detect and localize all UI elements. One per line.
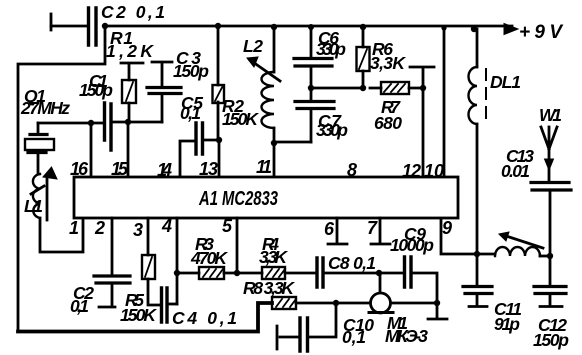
svg-text:2: 2 [94,218,105,238]
svg-text:1: 1 [69,218,79,238]
svg-text:C2 0,1: C2 0,1 [101,2,165,22]
svg-text:15: 15 [111,159,129,179]
svg-text:680: 680 [374,113,402,133]
svg-text:150K: 150K [222,109,259,129]
svg-text:150p: 150p [533,330,569,350]
svg-text:9: 9 [442,218,452,238]
svg-text:12: 12 [402,161,421,181]
svg-text:13: 13 [199,159,218,179]
svg-text:6: 6 [324,219,335,239]
svg-text:3: 3 [133,220,143,240]
svg-text:150p: 150p [173,61,209,81]
svg-text:L2: L2 [243,36,263,56]
svg-text:0,1: 0,1 [342,327,366,347]
svg-text:11: 11 [256,157,272,177]
svg-text:0,1: 0,1 [70,296,89,316]
svg-text:DL1: DL1 [490,72,521,92]
svg-text:10: 10 [424,161,444,181]
svg-text:3,3K: 3,3K [370,53,406,73]
svg-text:150p: 150p [79,80,113,100]
svg-text:МКЭ-3: МКЭ-3 [385,326,428,346]
svg-text:470K: 470K [190,248,228,268]
svg-text:R8 3,3K: R8 3,3K [243,278,295,298]
svg-text:330p: 330p [316,120,348,140]
svg-text:0,1: 0,1 [180,103,201,123]
svg-text:7: 7 [367,218,378,238]
svg-text:C8 0,1: C8 0,1 [328,253,376,273]
svg-text:5: 5 [222,216,233,236]
svg-text:C4 0,1: C4 0,1 [172,308,237,328]
svg-text:1000p: 1000p [390,235,434,255]
svg-text:1,2K: 1,2K [106,41,154,61]
svg-text:W1: W1 [539,105,562,125]
svg-text:A1 MC2833: A1 MC2833 [198,188,278,210]
svg-text:3,3K: 3,3K [259,247,288,267]
svg-text:150K: 150K [120,305,157,325]
svg-text:91p: 91p [494,314,520,334]
svg-text:0.01: 0.01 [501,161,530,181]
svg-text:8: 8 [347,160,357,180]
svg-text:330p: 330p [316,39,346,59]
svg-text:4: 4 [161,216,172,236]
svg-text:14: 14 [157,160,172,180]
svg-text:16: 16 [70,159,89,179]
svg-text:L1: L1 [24,196,43,216]
svg-text:+9V: +9V [519,22,563,43]
svg-text:27MHz: 27MHz [20,98,70,118]
